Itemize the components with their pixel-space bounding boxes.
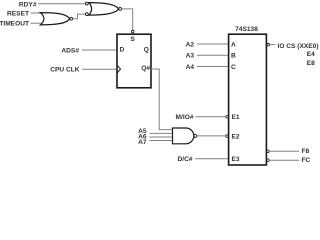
signal label A2 xyxy=(186,41,195,48)
wire A7 xyxy=(150,140,173,142)
OR gate G1 (NOR: RESET+TIMEOUT) xyxy=(40,13,72,25)
svg-text:D: D xyxy=(120,47,125,54)
wire CPU CLK to clock input xyxy=(82,68,117,70)
wire Q# to AND gate G3 top input xyxy=(151,69,173,130)
O0 output bubble xyxy=(267,43,270,46)
svg-text:CPU CLK: CPU CLK xyxy=(50,67,80,74)
signal label A5 xyxy=(138,128,147,135)
E2 input bubble xyxy=(226,135,229,138)
wire RESET to G1 xyxy=(31,12,42,14)
O7 output bubble xyxy=(267,159,270,162)
E1 input bubble xyxy=(226,116,229,119)
svg-text:E4: E4 xyxy=(307,51,315,58)
signal label ADS# xyxy=(61,47,79,54)
wire G1 output to G2 lower input xyxy=(73,14,86,19)
signal label RESET xyxy=(7,11,29,18)
svg-text:B: B xyxy=(231,53,236,60)
svg-text:S: S xyxy=(130,36,135,43)
S input bubble xyxy=(131,30,134,33)
svg-text:M/IO#: M/IO# xyxy=(176,114,194,121)
svg-text:TIMEOUT: TIMEOUT xyxy=(0,21,29,28)
svg-text:RESET: RESET xyxy=(7,11,29,18)
svg-text:FC: FC xyxy=(302,157,311,164)
wire A2 to pin A xyxy=(197,43,229,45)
signal label CPU CLK xyxy=(50,67,80,74)
svg-text:E3: E3 xyxy=(232,156,240,163)
svg-text:IO CS (XXE0): IO CS (XXE0) xyxy=(278,43,319,50)
net label F8 xyxy=(302,148,310,155)
wire O6 output xyxy=(269,150,299,152)
wire A4 to pin C xyxy=(197,66,229,68)
svg-text:E1: E1 xyxy=(232,114,240,121)
svg-text:Q: Q xyxy=(144,47,149,54)
wire M/IO# to E1 xyxy=(195,116,226,118)
net label E4 xyxy=(307,51,315,58)
svg-text:Q#: Q# xyxy=(141,65,150,72)
wire ADS# to D input xyxy=(82,49,117,51)
net label FC xyxy=(302,157,311,164)
svg-text:A7: A7 xyxy=(138,139,147,146)
svg-text:A3: A3 xyxy=(186,53,195,60)
flip-flop U1 box xyxy=(117,34,151,88)
svg-text:RDY#: RDY# xyxy=(19,1,37,8)
svg-text:D/C#: D/C# xyxy=(177,156,192,163)
signal label A6 xyxy=(138,134,147,141)
signal label M/IO# xyxy=(176,114,194,121)
svg-text:A: A xyxy=(231,41,236,48)
signal label D/C# xyxy=(177,156,192,163)
wire RDY# to G2 upper input xyxy=(38,3,85,5)
wire D/C# to E3 xyxy=(195,158,228,160)
signal label A7 xyxy=(138,139,147,146)
net label IO CS (XXE0) xyxy=(278,43,319,50)
decoder U2 74S138 xyxy=(229,26,267,165)
svg-text:A4: A4 xyxy=(186,64,195,71)
svg-text:A2: A2 xyxy=(186,41,195,48)
wire A3 to pin B xyxy=(197,54,229,56)
svg-text:F8: F8 xyxy=(302,148,310,155)
svg-text:C: C xyxy=(231,64,236,71)
OR gate G2 (negative-input NOR, top) xyxy=(85,2,121,15)
wire G2 output to flip-flop S input xyxy=(122,9,133,30)
signal label A4 xyxy=(186,64,195,71)
O6 output bubble xyxy=(267,150,270,153)
signal label A3 xyxy=(186,53,195,60)
wire O0 output xyxy=(270,44,276,46)
signal label RDY# xyxy=(19,1,37,8)
net label E8 xyxy=(307,60,315,67)
svg-text:ADS#: ADS# xyxy=(61,47,79,54)
svg-text:74S138: 74S138 xyxy=(235,26,258,33)
wire A6 xyxy=(150,136,173,138)
svg-text:E2: E2 xyxy=(232,134,240,141)
wire TIMEOUT to G1 xyxy=(31,22,42,24)
wire G3 output to E2 xyxy=(197,135,226,137)
svg-text:E8: E8 xyxy=(307,60,315,67)
signal label TIMEOUT xyxy=(0,21,29,28)
AND gate G3 (NAND, 4-input) xyxy=(173,128,197,144)
wire O7 output xyxy=(269,159,299,161)
wire A5 xyxy=(150,132,173,134)
